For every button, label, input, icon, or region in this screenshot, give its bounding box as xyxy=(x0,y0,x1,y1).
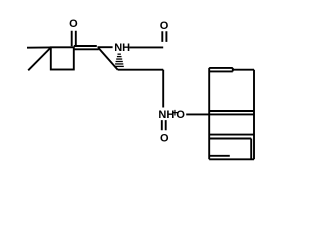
wire cage right edge xyxy=(253,70,255,160)
wire cage top line A xyxy=(209,67,233,69)
svg-text:O: O xyxy=(69,18,78,30)
wire bond NH to CHO xyxy=(129,46,163,48)
svg-text:O: O xyxy=(176,109,185,121)
wire methyl bond left horizontal xyxy=(27,46,51,48)
wire bond O to ring xyxy=(186,113,209,115)
wire cage top inner line B xyxy=(210,70,233,72)
wire bond C2 to stereocenter diagonal xyxy=(98,48,117,70)
wire N=O double bond bottom xyxy=(162,120,166,130)
wire cage middle line E xyxy=(209,113,254,115)
wire C=O double bond top right xyxy=(162,31,166,42)
hashed wedge stereo bond xyxy=(115,54,124,68)
wire C=C double bond xyxy=(74,46,99,49)
wire cage inner right vertical xyxy=(250,139,252,160)
node cyclobutane ring xyxy=(51,47,74,69)
wire cage bottom line I xyxy=(209,158,254,160)
wire chain vertical bond xyxy=(162,70,164,108)
wire methyl bond diagonal xyxy=(28,48,51,71)
wire chain horizontal bond xyxy=(118,69,164,71)
wire cage short bottom line H xyxy=(210,155,230,157)
wire cage top line C xyxy=(233,69,254,71)
wire cage line F xyxy=(209,134,254,136)
wire cage line G xyxy=(209,138,251,140)
svg-text:O: O xyxy=(160,133,169,145)
node cage right: left edge xyxy=(208,68,210,159)
wire cage top step xyxy=(232,68,234,72)
wire cage middle line D xyxy=(209,110,254,112)
svg-text:NH: NH xyxy=(114,42,130,54)
svg-text:O: O xyxy=(160,20,169,32)
wire bond C2 to NH xyxy=(98,46,113,48)
wire C=O double bond left xyxy=(72,31,76,47)
